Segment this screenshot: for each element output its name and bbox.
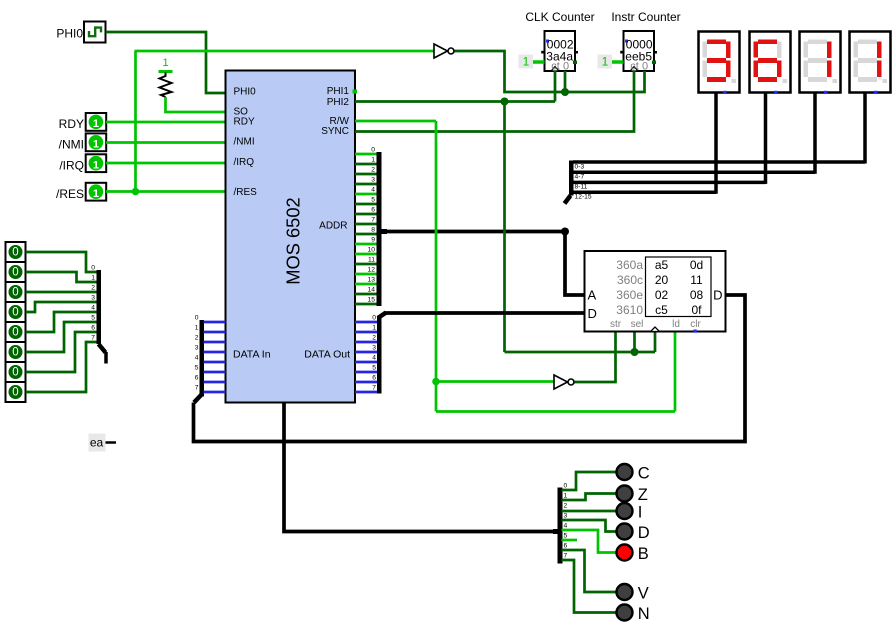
wire /RES pin to CPU bbox=[106, 190, 226, 193]
svg-text:ct: ct bbox=[630, 61, 639, 73]
svg-text:7: 7 bbox=[195, 384, 199, 391]
junction /RES branch bbox=[132, 188, 140, 196]
svg-text:7: 7 bbox=[372, 384, 376, 391]
svg-text:0d: 0d bbox=[690, 258, 703, 272]
svg-text:4-7: 4-7 bbox=[575, 174, 585, 181]
svg-text:12: 12 bbox=[368, 266, 376, 273]
wire flag bit 4 to LED B bbox=[562, 530, 617, 553]
wire DATA Out bus to RAM D input bbox=[385, 311, 585, 315]
svg-text:sel: sel bbox=[631, 319, 644, 330]
node R/W to U3 branch bbox=[432, 378, 440, 386]
svg-text:4: 4 bbox=[91, 304, 95, 311]
svg-text:1: 1 bbox=[523, 55, 530, 69]
wire pin-column bus stub bbox=[104, 352, 108, 364]
svg-text:6: 6 bbox=[195, 374, 199, 381]
LED D flag bbox=[617, 524, 650, 542]
svg-text:1: 1 bbox=[602, 55, 609, 69]
wire flag bit 0 to LED C bbox=[562, 472, 617, 490]
7-segment display DS3 (digit 1) bbox=[800, 32, 841, 95]
svg-text:360e: 360e bbox=[616, 288, 643, 302]
svg-text:PHI0: PHI0 bbox=[56, 26, 83, 40]
svg-text:c5: c5 bbox=[655, 303, 668, 317]
svg-text:0: 0 bbox=[563, 61, 569, 73]
splitter flags spine bbox=[558, 482, 568, 563]
svg-text:6: 6 bbox=[372, 374, 376, 381]
svg-text:14: 14 bbox=[368, 286, 376, 293]
svg-text:D: D bbox=[713, 288, 722, 303]
svg-text:B: B bbox=[638, 545, 649, 563]
svg-text:0: 0 bbox=[195, 314, 199, 321]
wire CTR1 pin 0 drop bbox=[564, 71, 567, 92]
svg-text:1: 1 bbox=[564, 492, 568, 499]
input pin RDY bbox=[59, 113, 107, 131]
svg-text:0: 0 bbox=[12, 327, 18, 339]
svg-text:9: 9 bbox=[371, 236, 375, 243]
svg-text:MOS 6502: MOS 6502 bbox=[283, 197, 304, 284]
wire flag bit 3 to LED D bbox=[562, 520, 617, 532]
svg-text:5: 5 bbox=[564, 532, 568, 539]
svg-text:0: 0 bbox=[12, 347, 18, 359]
svg-text:0: 0 bbox=[564, 482, 568, 489]
svg-text:2: 2 bbox=[564, 502, 568, 509]
splitter DATA Out fan-out wires (floating) bbox=[355, 322, 378, 392]
svg-text:N: N bbox=[638, 605, 650, 623]
svg-text:7: 7 bbox=[371, 216, 375, 223]
svg-text:02: 02 bbox=[655, 288, 669, 302]
wire PHI0 net: clock to CPU PHI0 pin bbox=[106, 32, 226, 93]
LED V flag bbox=[617, 584, 649, 602]
CPU U1 MOS 6502 bbox=[226, 71, 356, 403]
svg-text:0: 0 bbox=[12, 267, 18, 279]
node PHI2 branch bbox=[501, 98, 509, 106]
svg-text:2: 2 bbox=[91, 284, 95, 291]
splitter DATA In fan-out wires (floating) bbox=[204, 322, 226, 392]
splitter pin-column spine bbox=[91, 264, 105, 352]
svg-text:3: 3 bbox=[195, 344, 199, 351]
svg-text:DATA Out: DATA Out bbox=[304, 349, 350, 361]
svg-text:ct: ct bbox=[551, 61, 560, 73]
svg-text:7: 7 bbox=[564, 552, 568, 559]
wire U3 output to RAM str bbox=[575, 332, 616, 383]
probe ea bbox=[89, 434, 117, 452]
wire CPU P output bus to flags splitter bbox=[284, 403, 558, 532]
resistor R1 (pull-up, value 1) bbox=[159, 57, 173, 97]
constant 1 (CTR1 enable) bbox=[519, 55, 534, 69]
counter CTR2 (Instr Counter) bbox=[611, 10, 680, 73]
node RAM sel branch bbox=[631, 348, 639, 356]
wire RAM D output bus to DATA In bus bbox=[194, 295, 746, 442]
LED B flag bbox=[617, 545, 649, 563]
svg-text:RDY: RDY bbox=[59, 117, 84, 131]
7-segment display DS4 (digit 1) bbox=[850, 32, 891, 95]
svg-text:RDY: RDY bbox=[234, 117, 255, 128]
svg-text:/RES: /RES bbox=[234, 187, 258, 198]
svg-text:3: 3 bbox=[371, 176, 375, 183]
wire /IRQ pin to CPU bbox=[106, 162, 226, 165]
svg-text:2: 2 bbox=[195, 334, 199, 341]
node counter pin-0 rail junction at CTR1 bbox=[561, 88, 569, 96]
svg-text:0: 0 bbox=[12, 367, 18, 379]
input pin column D0-D7 (value 0) bbox=[6, 242, 26, 402]
wire constant to CTR2 ct bbox=[612, 60, 624, 64]
wires pin column to splitter legs bbox=[26, 252, 97, 392]
svg-text:20: 20 bbox=[655, 273, 669, 287]
svg-text:/NMI: /NMI bbox=[59, 137, 84, 151]
svg-text:ADDR: ADDR bbox=[319, 220, 347, 231]
clock PHI0 bbox=[56, 22, 105, 43]
splitter ADDR (16-bit) fan-out wires bbox=[355, 154, 377, 304]
svg-text:4: 4 bbox=[195, 354, 199, 361]
wire RDY pin to CPU bbox=[106, 121, 226, 124]
counter CTR1 (CLK Counter) bbox=[525, 10, 594, 73]
svg-text:1: 1 bbox=[93, 118, 99, 130]
svg-text:D: D bbox=[638, 524, 650, 542]
svg-text:0: 0 bbox=[12, 387, 18, 399]
wire nibble 8-11 to display DS2 bbox=[764, 93, 768, 184]
svg-text:ea: ea bbox=[90, 436, 104, 450]
svg-text:/IRQ: /IRQ bbox=[59, 158, 84, 172]
svg-text:D: D bbox=[588, 306, 597, 321]
svg-text:7: 7 bbox=[91, 334, 95, 341]
wire constant to CTR1 ct bbox=[533, 60, 545, 64]
svg-text:1: 1 bbox=[91, 274, 95, 281]
svg-text:clr: clr bbox=[690, 319, 701, 330]
svg-text:3610: 3610 bbox=[616, 303, 643, 317]
svg-text:6: 6 bbox=[371, 206, 375, 213]
svg-text:V: V bbox=[638, 584, 649, 602]
svg-text:5: 5 bbox=[91, 314, 95, 321]
wire flag bit 6 to LED V bbox=[562, 550, 617, 592]
svg-text:/RES: /RES bbox=[56, 187, 84, 201]
input pin /IRQ bbox=[59, 154, 106, 172]
svg-text:11: 11 bbox=[690, 273, 703, 287]
inverter U2 (clock gate) bbox=[434, 44, 454, 58]
splitter DATA In spine bbox=[194, 314, 204, 402]
svg-text:0: 0 bbox=[12, 307, 18, 319]
svg-text:3: 3 bbox=[564, 512, 568, 519]
wire ADDR bus (16) bbox=[381, 229, 585, 295]
svg-text:5: 5 bbox=[371, 196, 375, 203]
wire nibble 4-7 to display DS3 bbox=[813, 93, 817, 174]
wire flag bit 1 to LED Z bbox=[562, 494, 617, 501]
inverter U3 (write strobe) bbox=[554, 375, 574, 389]
constant 1 (CTR2 enable) bbox=[598, 55, 613, 69]
node /RES distribution: vertical branch x=135.5 and top run to inverter U1 input bbox=[135, 51, 435, 192]
svg-text:8: 8 bbox=[371, 226, 375, 233]
svg-text:11: 11 bbox=[368, 256, 375, 263]
svg-text:360a: 360a bbox=[616, 258, 643, 272]
svg-text:A: A bbox=[588, 288, 597, 303]
svg-text:Instr Counter: Instr Counter bbox=[611, 10, 680, 24]
svg-text:1: 1 bbox=[162, 57, 168, 69]
LED N flag bbox=[617, 605, 650, 623]
wire R/W net: CPU R/W to inverter U3 and RAM ld bbox=[355, 121, 675, 412]
svg-text:1: 1 bbox=[372, 324, 376, 331]
svg-text:5: 5 bbox=[372, 364, 376, 371]
LED C flag bbox=[617, 464, 650, 482]
svg-text:0: 0 bbox=[372, 314, 376, 321]
svg-text:PHI2: PHI2 bbox=[327, 97, 350, 108]
svg-text:3: 3 bbox=[372, 344, 376, 351]
wire nibble 12-15 to display DS1 bbox=[714, 93, 718, 194]
svg-text:13: 13 bbox=[368, 276, 376, 283]
RAM U4 (memory 360a-3610) bbox=[585, 251, 726, 333]
svg-text:1: 1 bbox=[371, 156, 375, 163]
splitter ADDR spine bbox=[368, 146, 382, 306]
svg-text:0: 0 bbox=[91, 264, 95, 271]
svg-text:3: 3 bbox=[91, 294, 95, 301]
svg-text:15: 15 bbox=[368, 296, 376, 303]
svg-text:12-15: 12-15 bbox=[575, 194, 592, 201]
wire resistor R1 to CPU SO pin bbox=[166, 97, 226, 112]
svg-text:0: 0 bbox=[12, 287, 18, 299]
svg-text:0: 0 bbox=[12, 247, 18, 259]
svg-text:10: 10 bbox=[368, 246, 376, 253]
wire /NMI pin to CPU bbox=[106, 141, 226, 144]
svg-text:0: 0 bbox=[642, 61, 648, 73]
svg-text:CLK Counter: CLK Counter bbox=[525, 10, 594, 24]
wire PHI2 net: CPU PHI2 to CTR1 clock and RAM sel/clock bbox=[355, 71, 655, 352]
wire flag bit 2 to LED I bbox=[562, 510, 617, 513]
svg-text:1: 1 bbox=[93, 138, 99, 150]
svg-text:360c: 360c bbox=[617, 273, 643, 287]
svg-text:str: str bbox=[610, 319, 622, 330]
7-segment display DS1 (digit 3) bbox=[699, 32, 740, 95]
splitter nibbles 0-3/4-7/8-11/12-15 bbox=[565, 161, 866, 204]
svg-text:PHI0: PHI0 bbox=[234, 87, 257, 98]
LED I flag bbox=[617, 503, 643, 521]
svg-text:Z: Z bbox=[638, 486, 648, 504]
svg-text:DATA In: DATA In bbox=[233, 349, 271, 361]
svg-text:5: 5 bbox=[195, 364, 199, 371]
wire nibble 0-3 to display DS4 bbox=[863, 93, 867, 164]
svg-text:0f: 0f bbox=[691, 303, 702, 317]
svg-text:8-11: 8-11 bbox=[575, 184, 588, 191]
svg-text:C: C bbox=[638, 464, 650, 482]
svg-text:1: 1 bbox=[93, 188, 99, 200]
wire flag bit 7 to LED N bbox=[562, 560, 617, 613]
svg-text:6: 6 bbox=[564, 542, 568, 549]
svg-text:2: 2 bbox=[371, 166, 375, 173]
svg-text:2: 2 bbox=[372, 334, 376, 341]
7-segment display DS2 (digit 6) bbox=[750, 32, 791, 95]
LED Z flag bbox=[617, 486, 648, 504]
wire SYNC to CTR2 clock bbox=[355, 71, 634, 132]
svg-text:ld: ld bbox=[672, 319, 680, 330]
svg-text:6: 6 bbox=[91, 324, 95, 331]
svg-text:0-3: 0-3 bbox=[575, 163, 585, 170]
svg-text:SYNC: SYNC bbox=[321, 126, 349, 137]
svg-text:1: 1 bbox=[195, 324, 199, 331]
wire flag bit 5 stub bbox=[562, 539, 578, 542]
svg-text:0: 0 bbox=[371, 146, 375, 153]
svg-text:/IRQ: /IRQ bbox=[234, 157, 255, 168]
input pin /RES bbox=[56, 183, 106, 201]
wire U2 output to counters pin-0 rail bbox=[455, 51, 645, 92]
svg-text:a5: a5 bbox=[655, 258, 669, 272]
node ADDR bus junction bbox=[561, 228, 569, 236]
svg-text:I: I bbox=[638, 503, 643, 521]
splitter DATA Out spine bbox=[372, 313, 386, 394]
svg-text:08: 08 bbox=[690, 288, 704, 302]
svg-text:4: 4 bbox=[371, 186, 375, 193]
svg-text:4: 4 bbox=[372, 354, 376, 361]
input pin /NMI bbox=[59, 133, 107, 151]
svg-text:/NMI: /NMI bbox=[234, 137, 255, 148]
svg-text:PHI1: PHI1 bbox=[327, 86, 350, 97]
svg-text:4: 4 bbox=[564, 522, 568, 529]
svg-text:1: 1 bbox=[93, 159, 99, 171]
pin PHI1 stub (unconnected) bbox=[353, 90, 358, 94]
